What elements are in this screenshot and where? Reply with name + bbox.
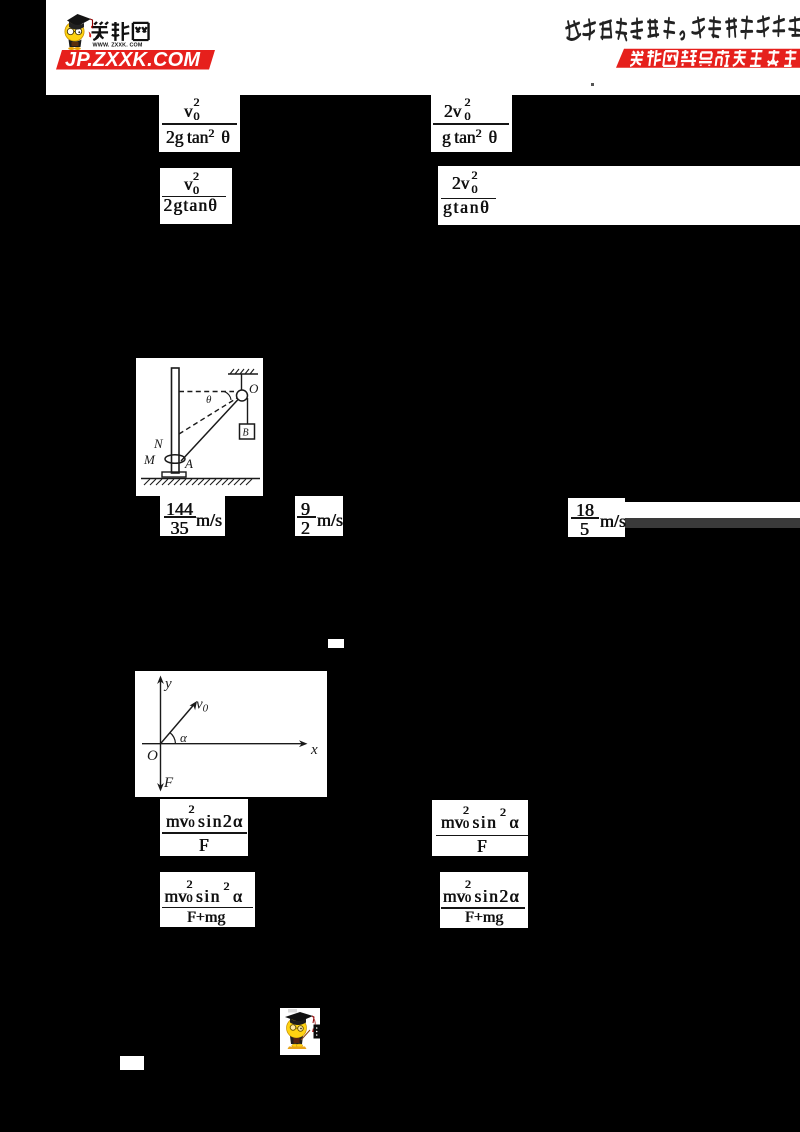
svg-text:θ: θ [206, 394, 212, 406]
svg-text:JP.ZXXK.COM: JP.ZXXK.COM [65, 49, 201, 71]
svg-text:x: x [310, 742, 318, 758]
svg-text:O: O [249, 381, 259, 396]
svg-text:N: N [153, 436, 164, 451]
svg-text:WWW. ZXXK. COM: WWW. ZXXK. COM [93, 43, 143, 49]
svg-text:A: A [184, 456, 193, 471]
svg-text:v0: v0 [196, 697, 209, 715]
svg-text:y: y [163, 676, 172, 692]
svg-text:α: α [180, 730, 188, 745]
svg-text:F: F [163, 775, 174, 791]
svg-text:O: O [147, 748, 158, 764]
svg-text:M: M [143, 452, 156, 467]
svg-text:B: B [243, 428, 249, 439]
